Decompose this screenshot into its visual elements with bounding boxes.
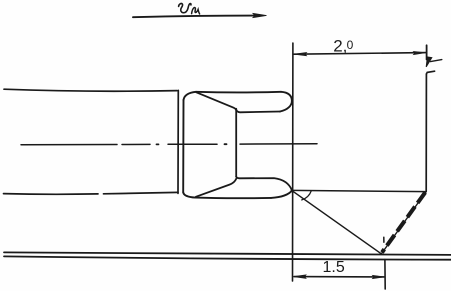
workpiece surface lower line [4,256,451,259]
break arrow mark [426,57,432,67]
svg-text:0: 0 [347,38,354,52]
label subscript m [192,8,200,14]
dimension line 1,5 [294,276,384,278]
right arrowhead of 2,0 [414,51,426,54]
right vertical upper segment [426,45,428,59]
centerline dash 1 [21,144,117,146]
centerline dot 1 [157,143,159,145]
inner vertical line [235,109,237,177]
shaft bottom line segment 2 [104,192,179,193]
centerline dash 2 [122,143,150,145]
break arrow tail [431,60,442,62]
angle arc [302,191,312,200]
inner bottom horizontal and nose upper curve [236,177,292,191]
inner top chamfer slant [196,92,236,110]
shaft bottom line segment 1 [4,193,99,196]
flank hatching thick dashes [382,192,425,252]
velocity arrowhead [253,13,267,17]
flank edge thin line [382,192,427,254]
tool tip horizontal line [292,190,427,191]
die head bottom-left corner [183,192,195,197]
tick above contact point [383,237,385,242]
die head top-right nose [280,92,292,112]
die head bottom-right nose lower curve [271,191,292,198]
centerline dot 2 [225,143,227,145]
right vertical lower segment [425,74,427,191]
left arrowhead of 2,0 [294,53,307,56]
centerline dash 3 [168,143,217,145]
cutting edge diagonal [292,191,381,254]
svg-text:1.5: 1.5 [323,259,345,276]
hook at top of lower right vertical [426,71,434,74]
velocity arrow line [133,16,258,18]
die head left edge [182,100,184,192]
dimension line 2,0 [294,53,426,55]
inner top horizontal [236,110,280,113]
workpiece surface upper line [4,252,451,255]
label v_m (script v) [179,4,191,13]
right arrowhead of 1,5 [373,275,385,278]
extension line 1,5 right [384,260,386,290]
inner bottom chamfer slant [196,179,236,197]
die head top edge [196,91,281,94]
centerline dash 4 [240,143,317,145]
left extension line (tool face) [292,43,294,281]
shaft top line [4,89,177,91]
svg-text:2,: 2, [333,36,347,55]
left arrowhead of 1,5 [293,275,306,279]
shaft end face [177,90,179,193]
die head top-left corner [184,92,197,100]
die head bottom edge [196,197,272,200]
